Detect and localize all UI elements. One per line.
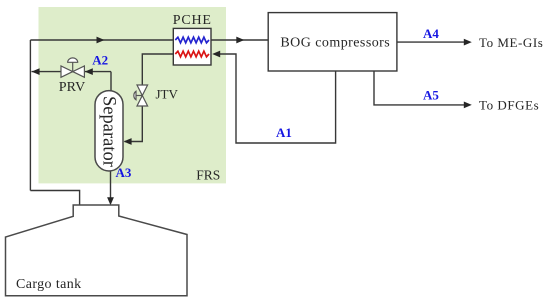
svg-text:FRS: FRS: [196, 167, 220, 182]
svg-text:Separator: Separator: [99, 96, 119, 167]
svg-text:PCHE: PCHE: [173, 13, 212, 28]
svg-text:BOG compressors: BOG compressors: [280, 35, 390, 50]
svg-text:PRV: PRV: [59, 80, 86, 95]
svg-text:A1: A1: [276, 125, 292, 140]
svg-text:Cargo tank: Cargo tank: [16, 277, 82, 292]
svg-text:A2: A2: [92, 53, 108, 68]
svg-text:JTV: JTV: [156, 87, 179, 102]
svg-text:To DFGEs: To DFGEs: [479, 98, 539, 113]
svg-text:To ME-GIs: To ME-GIs: [479, 35, 543, 50]
svg-text:A4: A4: [423, 26, 439, 41]
svg-text:A3: A3: [116, 165, 132, 180]
svg-text:A5: A5: [423, 88, 439, 103]
